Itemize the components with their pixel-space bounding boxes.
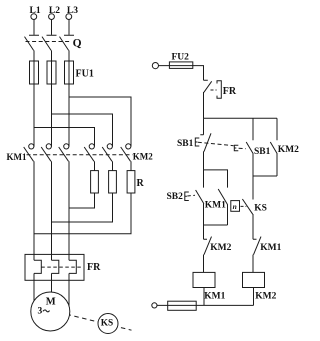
svg-text:L2: L2 — [49, 6, 60, 16]
wire KM2 pole2 to R2 — [112, 161, 114, 170]
svg-text:KM1: KM1 — [7, 152, 27, 162]
wire phase1 switch to KM1 contact — [33, 50, 35, 146]
speed relay KS rotor — [98, 314, 118, 334]
contactor KM2 NC interlock contact — [204, 225, 212, 272]
resistor R2 — [109, 171, 117, 193]
svg-text:3: 3 — [38, 307, 43, 317]
thermal relay FR heater 3 — [69, 260, 76, 273]
wire rejoin SB1/KM2 — [253, 175, 277, 177]
contactor KM1 aux NO contact — [218, 189, 228, 225]
node L3 terminal — [66, 14, 72, 20]
wire L1 to switch — [33, 20, 35, 35]
switch Q pole 1 — [25, 35, 40, 50]
wire KM2 coil to bus — [253, 288, 255, 306]
SB1 linkage dashes 2 — [239, 147, 246, 150]
wire main to SB2 — [203, 170, 205, 188]
svg-text:R: R — [137, 178, 145, 189]
fuse FU2 — [169, 62, 192, 69]
contactor KM1 main contact pole 1 — [24, 144, 34, 162]
wire branch L3 to KM2 pole3 — [69, 97, 131, 147]
wire L3 to switch — [68, 20, 70, 35]
svg-text:M: M — [46, 297, 56, 308]
fuse bottom — [168, 301, 197, 310]
wire R3 to motor line 1 — [34, 193, 131, 234]
node L2 terminal — [49, 14, 55, 20]
coil KM1 — [193, 272, 215, 287]
svg-text:KM1: KM1 — [260, 243, 281, 253]
thermal relay FR linkage — [41, 266, 83, 268]
resistor R1 — [91, 171, 99, 193]
contactor KM2 aux NO contact — [270, 118, 277, 176]
wire branch L1 to KM2 pole1 — [34, 128, 95, 147]
KS actuator box — [231, 201, 240, 212]
contactor KM2 main contact pole 3 — [121, 144, 131, 162]
wire motor line 2 — [51, 161, 53, 260]
contactor KM2 main contact pole 1 — [84, 144, 94, 162]
coil KM2 — [243, 272, 265, 287]
wire FR to motor V — [51, 273, 53, 292]
svg-text:KM1: KM1 — [204, 292, 225, 302]
svg-text:SB1: SB1 — [254, 147, 271, 157]
thermal relay FR heater 2 — [52, 260, 59, 273]
svg-text:FU1: FU1 — [76, 69, 94, 80]
SB2 operator — [185, 192, 189, 201]
svg-text:KM2: KM2 — [255, 292, 276, 302]
contact FR NC — [204, 80, 212, 118]
wire L2 to switch — [51, 20, 53, 35]
wire KM2 pole1 to R1 — [94, 161, 96, 170]
wire R1 to motor line 3 — [69, 193, 95, 208]
speed relay KS contact — [242, 176, 253, 239]
wire phase2 switch to KM1 contact — [51, 50, 53, 146]
button SB1 NC contact — [200, 118, 211, 170]
svg-text:KM2: KM2 — [133, 151, 153, 161]
node control terminal top — [152, 63, 158, 69]
wire branch L2 to KM2 pole2 — [52, 114, 113, 147]
svg-text:SB2: SB2 — [167, 192, 184, 202]
resistor R3 — [127, 171, 135, 193]
button SB2 NO contact — [196, 190, 204, 225]
wire KM2 pole3 to R3 — [130, 161, 132, 170]
wire rejoin SB2/KM1 — [204, 224, 228, 226]
switch Q pole 2 — [42, 35, 57, 50]
svg-text:KS: KS — [254, 204, 267, 214]
wire FR to motor W — [68, 273, 70, 306]
thermal relay FR box — [25, 254, 84, 280]
svg-text:n: n — [233, 202, 237, 211]
svg-text:Q: Q — [73, 37, 82, 49]
node control terminal bottom — [152, 303, 157, 308]
thermal relay FR heater 1 — [34, 260, 41, 273]
svg-text:L1: L1 — [30, 6, 41, 16]
wire motor line 1 — [33, 161, 35, 260]
SB1 operator mid E — [234, 145, 238, 151]
svg-text:KM2: KM2 — [278, 145, 299, 155]
wire R2 to motor line 2 — [52, 193, 113, 222]
FR trip actuator — [211, 81, 222, 99]
svg-text:FR: FR — [223, 86, 237, 97]
wire branch to SB1/KM2 — [204, 117, 278, 119]
svg-text:FR: FR — [87, 262, 101, 273]
fuse FU1 pole 3 — [65, 61, 74, 84]
switch Q pole 3 — [60, 35, 75, 50]
KS linkage dash — [241, 205, 247, 207]
shaft dashed link motor to KS — [51, 310, 132, 330]
svg-text:KS: KS — [101, 319, 113, 329]
fuse FU1 pole 1 — [30, 61, 39, 84]
SB1 linkage dashes — [198, 142, 234, 146]
svg-text:FU2: FU2 — [172, 53, 190, 63]
contactor KM1 main contact pole 3 — [59, 144, 69, 162]
fuse FU1 pole 2 — [47, 61, 56, 84]
wire bottom bus — [157, 304, 254, 306]
button SB1 NO contact — [246, 118, 253, 176]
contactor KM1 main contact pole 2 — [41, 144, 51, 162]
wire phase3 switch to KM1 contact — [68, 50, 70, 146]
svg-text:KM2: KM2 — [210, 243, 231, 253]
svg-text:L3: L3 — [67, 6, 78, 16]
contactor KM1 linkage — [27, 154, 133, 156]
SB2 linkage dashes — [187, 194, 195, 197]
wire branch to KM1 aux — [204, 170, 228, 188]
wire control top — [159, 66, 204, 81]
motor M1 — [31, 292, 70, 331]
svg-text:SB1: SB1 — [177, 139, 194, 149]
wire motor line 3 — [68, 161, 70, 260]
SB1 operator — [195, 138, 199, 146]
node L1 terminal — [31, 14, 37, 20]
contactor KM2 main contact pole 2 — [102, 144, 112, 162]
wire FR to motor U — [33, 273, 35, 300]
contactor KM1 NC interlock contact — [253, 237, 261, 273]
wire KM1 coil to bus — [203, 288, 205, 306]
switch Q linkage — [26, 41, 72, 43]
svg-text:KM1: KM1 — [205, 200, 226, 210]
